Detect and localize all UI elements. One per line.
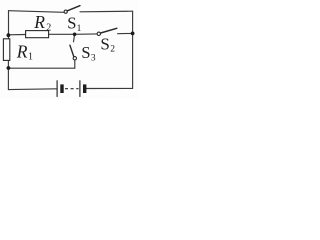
wire bottom right segment bbox=[86, 87, 132, 89]
svg-text:2: 2 bbox=[110, 45, 115, 55]
wire R2 box to S3 node bbox=[49, 33, 75, 35]
svg-text:R: R bbox=[33, 12, 45, 32]
resistor R1 bbox=[3, 39, 9, 61]
svg-text:S: S bbox=[100, 35, 109, 54]
battery dashed link bbox=[65, 88, 79, 90]
resistor R2 bbox=[26, 31, 49, 38]
wire S3 branch horizontal bbox=[8, 67, 74, 69]
switch S3 bbox=[70, 45, 77, 60]
svg-text:S: S bbox=[67, 14, 76, 33]
wire R2 row: left edge to R2 box bbox=[9, 34, 26, 36]
wire left edge lower bbox=[7, 60, 9, 89]
switch S2 bbox=[97, 28, 117, 35]
svg-text:1: 1 bbox=[28, 52, 33, 63]
wire S2 to right edge bbox=[118, 32, 133, 34]
battery cell 2 long plate bbox=[79, 80, 81, 97]
node: right edge / S2 row junction bbox=[131, 32, 135, 36]
battery cell 2 short thick plate bbox=[83, 84, 86, 93]
wire top-left segment bbox=[9, 11, 65, 13]
node: R2 row / S3 branch junction bbox=[73, 33, 77, 37]
svg-text:3: 3 bbox=[91, 54, 96, 64]
battery cell 1 long plate bbox=[56, 80, 58, 97]
wire right edge bbox=[132, 11, 134, 88]
svg-text:R: R bbox=[16, 42, 28, 62]
wire S3 node to S2 bbox=[75, 33, 97, 35]
svg-text:1: 1 bbox=[77, 24, 82, 34]
wire top-right segment bbox=[80, 10, 133, 13]
wire left edge upper bbox=[8, 11, 10, 39]
svg-text:S: S bbox=[81, 43, 90, 62]
switch S1 bbox=[64, 6, 80, 14]
svg-text:2: 2 bbox=[46, 22, 51, 33]
node: left edge / S3 row junction bbox=[6, 66, 10, 70]
wire S3 branch vertical lead upper bbox=[74, 34, 75, 42]
node: left edge / R2 row junction bbox=[6, 33, 10, 37]
wire bottom left segment bbox=[8, 88, 57, 91]
wire S3 branch vertical lead lower bbox=[74, 60, 76, 68]
battery cell 1 short thick plate bbox=[60, 84, 63, 93]
